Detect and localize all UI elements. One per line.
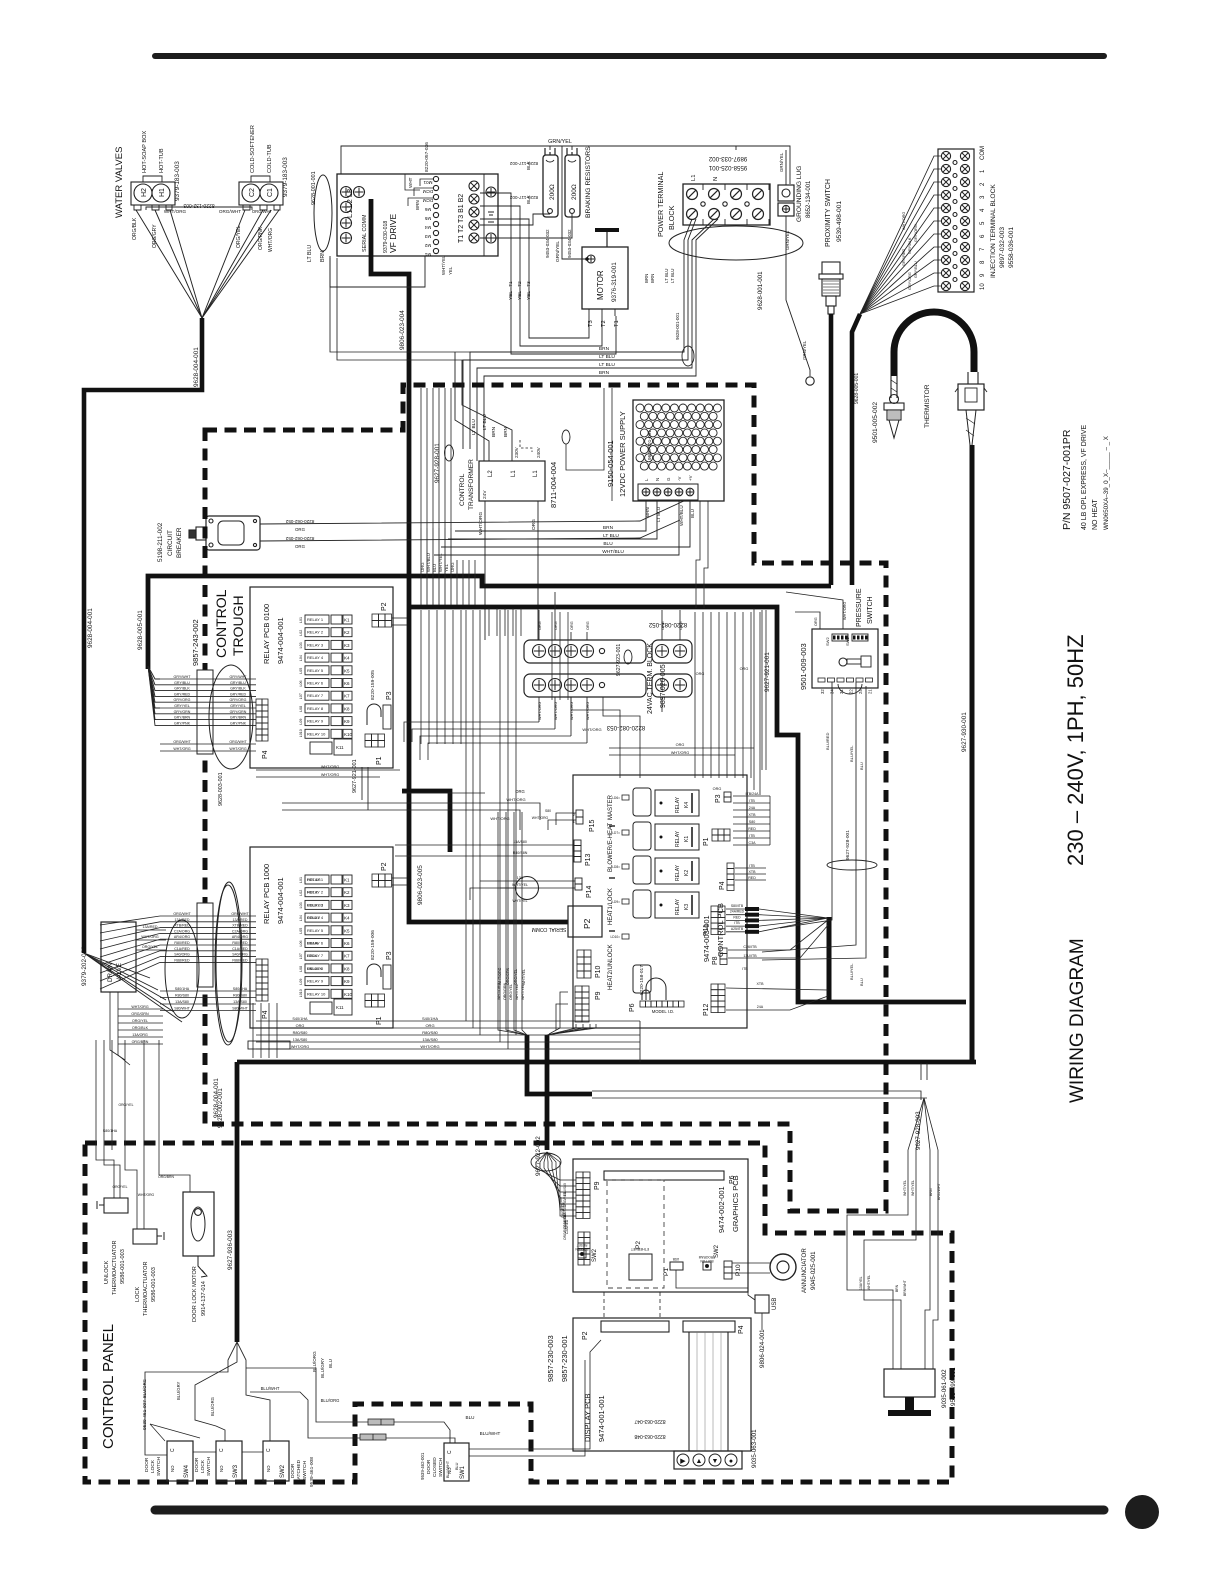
- svg-text:K9: K9: [344, 719, 350, 724]
- svg-text:RELAY PCB 0100: RELAY PCB 0100: [262, 604, 271, 664]
- drain valve 9379-202-002: [101, 922, 136, 992]
- injection cable thick: [852, 314, 860, 585]
- svg-text:GRY/RED: GRY/RED: [174, 692, 191, 696]
- comb connector: [578, 1232, 584, 1238]
- svg-text:DOOR LOCK MOTOR: DOOR LOCK MOTOR: [192, 1266, 198, 1322]
- svg-text:L03: L03: [299, 642, 303, 648]
- connector P4: [727, 863, 734, 869]
- adjust knob: [839, 658, 847, 666]
- svg-text:BRN: BRN: [644, 274, 649, 283]
- page number dot: [1125, 1495, 1159, 1529]
- svg-text:S40/ORG: S40/ORG: [174, 953, 190, 957]
- trunk display harness 9627-922-002: [545, 1035, 550, 1150]
- dashed enclosure control panel: [85, 1143, 952, 1482]
- svg-text:▲: ▲: [696, 1458, 703, 1465]
- svg-text:LT BLU: LT BLU: [670, 269, 675, 283]
- svg-text:WHT/ORG: WHT/ORG: [173, 747, 191, 751]
- svg-text:LD6=: LD6=: [612, 796, 620, 800]
- svg-text:N: N: [713, 177, 719, 181]
- svg-text:9628-004-001: 9628-004-001: [87, 608, 94, 648]
- svg-text:13A/S80: 13A/S80: [513, 840, 527, 844]
- svg-text:ORG: ORG: [713, 787, 722, 791]
- svg-text:L1: L1: [533, 470, 539, 477]
- svg-text:9627-928-001: 9627-928-001: [845, 830, 851, 860]
- trunk elbow to P11 collector: [827, 917, 832, 1002]
- svg-text:C3A: C3A: [749, 841, 757, 845]
- svg-text:SWITCH: SWITCH: [867, 596, 874, 624]
- svg-text:K8: K8: [344, 966, 350, 971]
- svg-text:ORG/GRN: ORG/GRN: [503, 982, 507, 1000]
- svg-text:RELAY 9: RELAY 9: [307, 979, 324, 984]
- svg-text:P9: P9: [594, 1181, 601, 1190]
- svg-text:R88/RED: R88/RED: [174, 958, 190, 962]
- svg-text:L06: L06: [299, 941, 303, 947]
- misc vertical wires near x545-570: [551, 612, 553, 700]
- svg-text:40 LB OPL EXPRESS, VF DRIVE: 40 LB OPL EXPRESS, VF DRIVE: [1081, 424, 1088, 530]
- svg-text:M4: M4: [424, 225, 431, 230]
- svg-text:L05: L05: [299, 668, 303, 674]
- svg-text:GRY/BRN: GRY/BRN: [230, 716, 247, 720]
- switch jumpers: [193, 1451, 216, 1453]
- svg-text:BRAKING RESISTORS: BRAKING RESISTORS: [585, 146, 592, 218]
- svg-text:XTB/RED: XTB/RED: [174, 924, 190, 928]
- svg-text:WHT/ORG: WHT/ORG: [229, 747, 247, 751]
- svg-text:9628-004-001: 9628-004-001: [193, 347, 200, 387]
- supply vent grid: [636, 404, 644, 412]
- svg-text:GRY/BLK: GRY/BLK: [908, 237, 912, 254]
- svg-text:●: ●: [729, 1458, 733, 1465]
- svg-text:9897-026-005: 9897-026-005: [660, 664, 667, 708]
- svg-text:9379-183-003: 9379-183-003: [174, 161, 181, 201]
- keypad arrow strip 9035-063-001: [674, 1451, 742, 1469]
- svg-text:9539-499-001: 9539-499-001: [950, 1367, 957, 1406]
- svg-text:HOT-TUB: HOT-TUB: [159, 148, 165, 173]
- svg-text:L1: L1: [691, 175, 697, 181]
- door latched switch SW2: [263, 1441, 289, 1481]
- wires left column down to panel: [95, 1040, 97, 1150]
- VF drive T1 T2 T3 B1 B2 terminals: [469, 233, 479, 243]
- svg-text:9628-005-001: 9628-005-001: [137, 610, 144, 650]
- connector P4 bar: [683, 1321, 735, 1332]
- svg-text:BLK: BLK: [526, 194, 531, 204]
- connector stub rect: [248, 1041, 290, 1049]
- horizontal links above control pcb: [609, 747, 754, 749]
- svg-text:13A/RED: 13A/RED: [143, 925, 158, 929]
- door harness fan: [145, 1342, 237, 1455]
- left fan wires: [100, 916, 160, 925]
- svg-text:8711-004-004: 8711-004-004: [549, 462, 558, 508]
- svg-text:P8: P8: [712, 956, 719, 965]
- svg-text:M6: M6: [424, 207, 431, 212]
- svg-text:L07: L07: [299, 953, 303, 959]
- svg-text:8: 8: [980, 260, 986, 264]
- svg-text:9897-032-003: 9897-032-003: [999, 227, 1006, 268]
- svg-text:BLU/ORG: BLU/ORG: [321, 1398, 340, 1403]
- svg-text:GRY/PNK: GRY/PNK: [174, 721, 191, 725]
- svg-text:INJECTION TERMINAL BLOCK: INJECTION TERMINAL BLOCK: [990, 184, 997, 278]
- DIP SW1: [852, 634, 868, 641]
- door closed switch SW1: [444, 1443, 469, 1481]
- svg-text:9586-001-003: 9586-001-003: [120, 1249, 126, 1284]
- wire resistor bottoms to B1 B2: [480, 214, 550, 225]
- svg-text:YEL: YEL: [444, 563, 449, 572]
- svg-text:LD10=: LD10=: [611, 935, 621, 939]
- svg-text:24A: 24A: [749, 806, 756, 810]
- braking resistor 2 200ohm: [565, 155, 580, 217]
- wires to annunciator device: [847, 1180, 908, 1369]
- svg-text:21: 21: [868, 689, 873, 694]
- svg-text:ORG: ORG: [740, 667, 749, 671]
- svg-text:K2: K2: [344, 630, 350, 635]
- svg-text:L1: L1: [511, 470, 517, 477]
- svg-text:K1: K1: [344, 618, 350, 623]
- svg-text:P12: P12: [703, 1003, 710, 1016]
- harness oval 9627-928-001b: [827, 860, 877, 870]
- svg-text:GRN/YEL: GRN/YEL: [785, 230, 790, 250]
- svg-text:13U/ITB: 13U/ITB: [743, 954, 757, 958]
- svg-text:ORG: ORG: [425, 1023, 434, 1028]
- door lock switch SW4: [167, 1441, 193, 1481]
- svg-text:GRY/WHT: GRY/WHT: [230, 675, 248, 679]
- wires P4 right: [735, 867, 766, 869]
- svg-text:9501-009-003: 9501-009-003: [799, 643, 808, 690]
- mid vertical wire bundle upper extension: [420, 388, 422, 528]
- svg-text:24VAC TERM. BLOCK: 24VAC TERM. BLOCK: [647, 643, 654, 714]
- svg-text:C2: C2: [249, 188, 256, 197]
- svg-text:L02: L02: [299, 630, 303, 636]
- power terminal block: [683, 184, 770, 225]
- wires crossing y760-775: [256, 769, 400, 771]
- svg-text:9627-923-001: 9627-923-001: [616, 644, 622, 676]
- svg-text:WHT/BLU: WHT/BLU: [426, 553, 431, 572]
- model ID dip: [640, 1001, 646, 1007]
- svg-text:9474-002-001: 9474-002-001: [717, 1186, 726, 1233]
- svg-text:13A: 13A: [517, 876, 524, 880]
- display PCB 9474-001-001: [573, 1318, 751, 1451]
- wire WHT/BRN stubs: [405, 174, 420, 190]
- svg-text:▼: ▼: [712, 1458, 719, 1465]
- svg-text:M2: M2: [424, 243, 431, 248]
- svg-text:9474-003-001: 9474-003-001: [702, 915, 711, 962]
- svg-text:SW1: SW1: [460, 1465, 466, 1479]
- svg-text:XTB: XTB: [749, 813, 757, 817]
- svg-text:RELAY: RELAY: [675, 898, 681, 915]
- door lock motor 9914-137-014: [183, 1192, 214, 1256]
- svg-text:3: 3: [980, 195, 986, 199]
- svg-text:WHT/ORG: WHT/ORG: [420, 1044, 439, 1049]
- wire drops from mid trunk: [488, 608, 490, 636]
- circuit breaker 5198-211-002: [206, 516, 260, 550]
- wire valve jumper: [146, 207, 252, 210]
- wires right of pcb1000: [398, 1003, 640, 1045]
- svg-text:SW2: SW2: [280, 1464, 286, 1478]
- wires into term row1 top: [538, 632, 540, 640]
- annunciator ring: [770, 1254, 796, 1280]
- svg-text:ORG: ORG: [586, 621, 590, 630]
- wire power block enclosure: [735, 146, 737, 150]
- svg-text:8220-117-002: 8220-117-002: [509, 161, 538, 166]
- svg-text:9474-001-001: 9474-001-001: [597, 1395, 606, 1442]
- svg-text:BLU: BLU: [466, 1415, 475, 1420]
- valve H1: [152, 184, 170, 202]
- svg-text:SW1: SW1: [845, 637, 850, 646]
- svg-text:ORG: ORG: [295, 544, 306, 549]
- svg-text:9627-936-003: 9627-936-003: [227, 1230, 234, 1270]
- thermistor lead twisted: [890, 376, 892, 398]
- connector P8: [720, 948, 727, 954]
- svg-text:9914-137-014: 9914-137-014: [201, 1281, 207, 1316]
- bundle ellipse small: [682, 346, 694, 366]
- svg-text:9035-061-002: 9035-061-002: [941, 1369, 948, 1408]
- svg-text:GRY/PNK: GRY/PNK: [230, 721, 247, 725]
- wire ORG: [450, 528, 452, 605]
- svg-text:R80/S80: R80/S80: [175, 994, 189, 998]
- svg-text:WHT/YEL: WHT/YEL: [911, 1180, 915, 1196]
- svg-text:HOT 1/3: HOT 1/3: [307, 878, 321, 882]
- svg-text:LT BLU: LT BLU: [599, 362, 615, 368]
- connector P3: [724, 792, 731, 797]
- svg-text:L03: L03: [299, 902, 303, 908]
- svg-text:RELAY 8: RELAY 8: [307, 706, 324, 711]
- motor pins T3 T2 T1: [588, 309, 590, 316]
- svg-text:DCM: DCM: [423, 198, 434, 203]
- svg-text:13A/ORG: 13A/ORG: [132, 1033, 148, 1037]
- svg-text:SWITCH: SWITCH: [438, 1458, 444, 1477]
- svg-text:XTB: XTB: [749, 870, 757, 874]
- svg-text:13A/S80: 13A/S80: [422, 1037, 438, 1042]
- svg-text:BLU/YEL: BLU/YEL: [849, 745, 854, 762]
- svg-text:K9: K9: [344, 979, 350, 984]
- svg-text:SERIAL COMM: SERIAL COMM: [532, 926, 567, 932]
- connector P10: [577, 950, 584, 957]
- lower bundle wires: [160, 990, 256, 992]
- harness ellipse power block: [669, 226, 803, 260]
- svg-text:RED: RED: [748, 827, 756, 831]
- braking resistor 1 200ohm: [543, 155, 558, 217]
- wires P11 with terminals: [726, 908, 745, 910]
- svg-text:RELAY: RELAY: [675, 864, 681, 881]
- harness oval left B: [215, 885, 241, 1045]
- svg-text:L09: L09: [299, 979, 303, 985]
- svg-text:WHT/YEL: WHT/YEL: [438, 553, 443, 572]
- svg-text:TROUGH: TROUGH: [230, 595, 246, 656]
- wires into thermoactuators: [96, 1150, 114, 1198]
- connector P4: [256, 699, 262, 705]
- svg-text:LOCK: LOCK: [200, 1459, 206, 1473]
- svg-text:8220-063-047: 8220-063-047: [634, 1418, 665, 1424]
- relay K11: [310, 1002, 332, 1014]
- junction dot: [585, 257, 589, 261]
- svg-text:K6: K6: [344, 681, 350, 686]
- connector P3: [367, 704, 381, 725]
- svg-text:DCM: DCM: [423, 189, 434, 194]
- wire motor ground GRN/YEL: [562, 146, 587, 259]
- dashed enclosure control module: [205, 385, 886, 1211]
- svg-text:L010: L010: [299, 989, 303, 997]
- svg-text:BUTTON: BUTTON: [700, 1259, 714, 1263]
- svg-text:S80: S80: [749, 820, 755, 824]
- svg-text:▶: ▶: [680, 1458, 686, 1465]
- svg-text:C26/ITB: C26/ITB: [743, 945, 757, 949]
- svg-text:C1: C1: [267, 188, 274, 197]
- svg-text:ORG/YEL: ORG/YEL: [112, 1185, 127, 1189]
- svg-text:P1: P1: [703, 837, 710, 846]
- svg-text:LD8=: LD8=: [612, 865, 620, 869]
- svg-text:BLU/WHT: BLU/WHT: [261, 1386, 280, 1391]
- svg-text:9379-030-018: 9379-030-018: [383, 221, 389, 253]
- svg-text:GRN/YEL: GRN/YEL: [779, 152, 784, 172]
- control PCB 9474-003-001: [573, 775, 747, 1028]
- svg-text:R80/RED: R80/RED: [174, 941, 190, 945]
- harness oval P4-0100: [209, 665, 253, 769]
- svg-text:S80/WHT: S80/WHT: [232, 1007, 248, 1011]
- connector P6 bar: [604, 1171, 724, 1180]
- svg-text:K7: K7: [344, 954, 350, 959]
- svg-text:USB: USB: [772, 1298, 778, 1310]
- svg-text:N: N: [655, 478, 660, 481]
- svg-text:230 – 240V, 1PH, 50HZ: 230 – 240V, 1PH, 50HZ: [1063, 634, 1088, 866]
- svg-text:UNLOCK: UNLOCK: [307, 967, 323, 971]
- svg-text:DOOR: DOOR: [426, 1459, 432, 1474]
- svg-text:P15: P15: [589, 819, 596, 832]
- svg-text:RELAY: RELAY: [675, 796, 681, 813]
- svg-text:BLU/RED: BLU/RED: [825, 733, 830, 750]
- graphics PCB 9474-002-001: [573, 1159, 748, 1292]
- svg-text:9806-023-005: 9806-023-005: [417, 865, 424, 905]
- connector P1: [670, 1262, 683, 1270]
- svg-text:P14: P14: [586, 885, 593, 898]
- svg-text:LT BLU: LT BLU: [307, 245, 313, 262]
- svg-text:WHT/YEL: WHT/YEL: [512, 899, 527, 903]
- VF M terminal stubs: [420, 179, 433, 186]
- svg-text:SWITCH: SWITCH: [156, 1457, 162, 1476]
- display harness fan into P9: [531, 1153, 561, 1171]
- svg-text:L02: L02: [299, 890, 303, 896]
- program button SW2: [703, 1262, 711, 1270]
- svg-text:ORG/PNK: ORG/PNK: [258, 226, 264, 250]
- svg-text:MODEL I.D.: MODEL I.D.: [652, 1009, 674, 1014]
- svg-text:6: 6: [980, 234, 986, 238]
- RELAY PCB 0100 board: [250, 587, 393, 768]
- trunk door harness 9627-936-003: [237, 1060, 976, 1065]
- svg-text:BLU/RED: BLU/RED: [825, 958, 830, 975]
- svg-text:ORG: ORG: [450, 562, 455, 572]
- svg-text:RELAY 2: RELAY 2: [307, 630, 324, 635]
- svg-text:WHT/ORG: WHT/ORG: [321, 765, 339, 769]
- svg-text:K2: K2: [344, 890, 350, 895]
- svg-text:RELAY 5: RELAY 5: [307, 928, 324, 933]
- svg-text:K4: K4: [344, 916, 350, 921]
- svg-text:UNLOCK: UNLOCK: [104, 1260, 110, 1284]
- svg-text:RELAY 10: RELAY 10: [307, 731, 326, 736]
- svg-text:+V: +V: [688, 475, 693, 481]
- trunk splay into control trough: [148, 666, 160, 679]
- svg-text:ITB: ITB: [749, 834, 755, 838]
- svg-text:RELAY PCB 1000: RELAY PCB 1000: [262, 864, 271, 924]
- wire WHT/YEL: [438, 528, 440, 605]
- supply terminal strip: [638, 484, 698, 500]
- svg-text:SWITCH: SWITCH: [302, 1461, 308, 1480]
- PS feed wires: [795, 612, 820, 629]
- svg-text:PROGRAM: PROGRAM: [698, 1255, 715, 1259]
- connector P4: [256, 959, 262, 965]
- svg-text:L04: L04: [299, 915, 303, 921]
- VF drive M terminals: [433, 176, 438, 181]
- svg-text:L1 L2 L3: L1 L2 L3: [345, 189, 354, 218]
- svg-text:BRN: BRN: [603, 525, 614, 531]
- unlock thermoactuator 9586-001-003: [104, 1198, 128, 1213]
- svg-text:22: 22: [849, 689, 854, 694]
- svg-text:GRY/BLK: GRY/BLK: [174, 687, 190, 691]
- svg-text:NO: NO: [447, 1467, 452, 1474]
- svg-text:BLU: BLU: [603, 541, 613, 547]
- svg-text:G: G: [666, 477, 671, 481]
- svg-text:GRY/WHT: GRY/WHT: [174, 675, 192, 679]
- svg-text:BRN/WHT: BRN/WHT: [903, 1280, 907, 1296]
- svg-text:BLU: BLU: [690, 509, 695, 518]
- wire P1 to USB: [676, 1270, 755, 1300]
- svg-text:K8: K8: [344, 706, 350, 711]
- svg-text:COM: COM: [980, 146, 986, 160]
- svg-text:WHT/YEL: WHT/YEL: [867, 1275, 871, 1290]
- svg-text:BLU: BLU: [859, 978, 864, 986]
- svg-text:MOTOR: MOTOR: [596, 270, 605, 300]
- svg-text:P2: P2: [381, 862, 388, 871]
- svg-text:9627-921-001: 9627-921-001: [352, 759, 358, 793]
- svg-text:T1: T1: [614, 320, 620, 327]
- control transformer 8711-004-004: [479, 461, 545, 501]
- svg-text:DOOR: DOOR: [290, 1463, 296, 1478]
- svg-text:P4: P4: [262, 750, 269, 759]
- wires from 24VAC into control pcb P15: [571, 697, 620, 778]
- svg-text:BRN: BRN: [599, 370, 610, 376]
- svg-text:RELAY 4: RELAY 4: [307, 655, 324, 660]
- svg-text:ANNUNCIATOR: ANNUNCIATOR: [801, 1248, 808, 1293]
- motor capacitor: [595, 228, 619, 232]
- svg-text:WHT/ORG: WHT/ORG: [671, 751, 689, 755]
- svg-text:9045-025-001: 9045-025-001: [810, 1251, 817, 1290]
- PS output wires BLU/RED BLU/YEL BLU: [780, 682, 832, 928]
- svg-text:240V: 240V: [536, 446, 541, 458]
- valve C1: [260, 184, 278, 202]
- svg-text:S80/1HA: S80/1HA: [175, 987, 190, 991]
- connector P15: [576, 810, 583, 817]
- svg-text:9628-001-001: 9628-001-001: [757, 271, 764, 310]
- svg-text:9558-025-001: 9558-025-001: [708, 164, 747, 171]
- svg-text:YEL - T3: YEL - T3: [526, 281, 532, 300]
- svg-text:8220-159-005: 8220-159-005: [370, 670, 376, 700]
- wire WHT/BLU: [426, 528, 428, 605]
- svg-text:9539-498-001: 9539-498-001: [836, 201, 843, 242]
- svg-text:R80/S8N: R80/S8N: [513, 851, 528, 855]
- wire ORG: [420, 528, 422, 605]
- svg-text:M5: M5: [424, 216, 431, 221]
- svg-text:BRN: BRN: [650, 274, 655, 283]
- svg-text:8220-082-053: 8220-082-053: [606, 724, 645, 731]
- svg-text:C2A/ORG: C2A/ORG: [174, 929, 190, 933]
- svg-text:P4: P4: [262, 1010, 269, 1019]
- svg-text:LATCHED: LATCHED: [296, 1459, 302, 1482]
- svg-text:13A/RED: 13A/RED: [233, 918, 248, 922]
- svg-text:P3: P3: [386, 691, 393, 700]
- svg-text:DISPLAY PCB: DISPLAY PCB: [583, 1394, 592, 1443]
- svg-text:USB: USB: [673, 1257, 680, 1261]
- wire breaker to transformer: [260, 500, 686, 524]
- svg-text:ORG/YEL: ORG/YEL: [142, 945, 158, 949]
- thermistor 9501-005-002: [890, 395, 899, 404]
- svg-text:GRY/YEL: GRY/YEL: [174, 704, 190, 708]
- svg-text:S40/ORG: S40/ORG: [232, 953, 248, 957]
